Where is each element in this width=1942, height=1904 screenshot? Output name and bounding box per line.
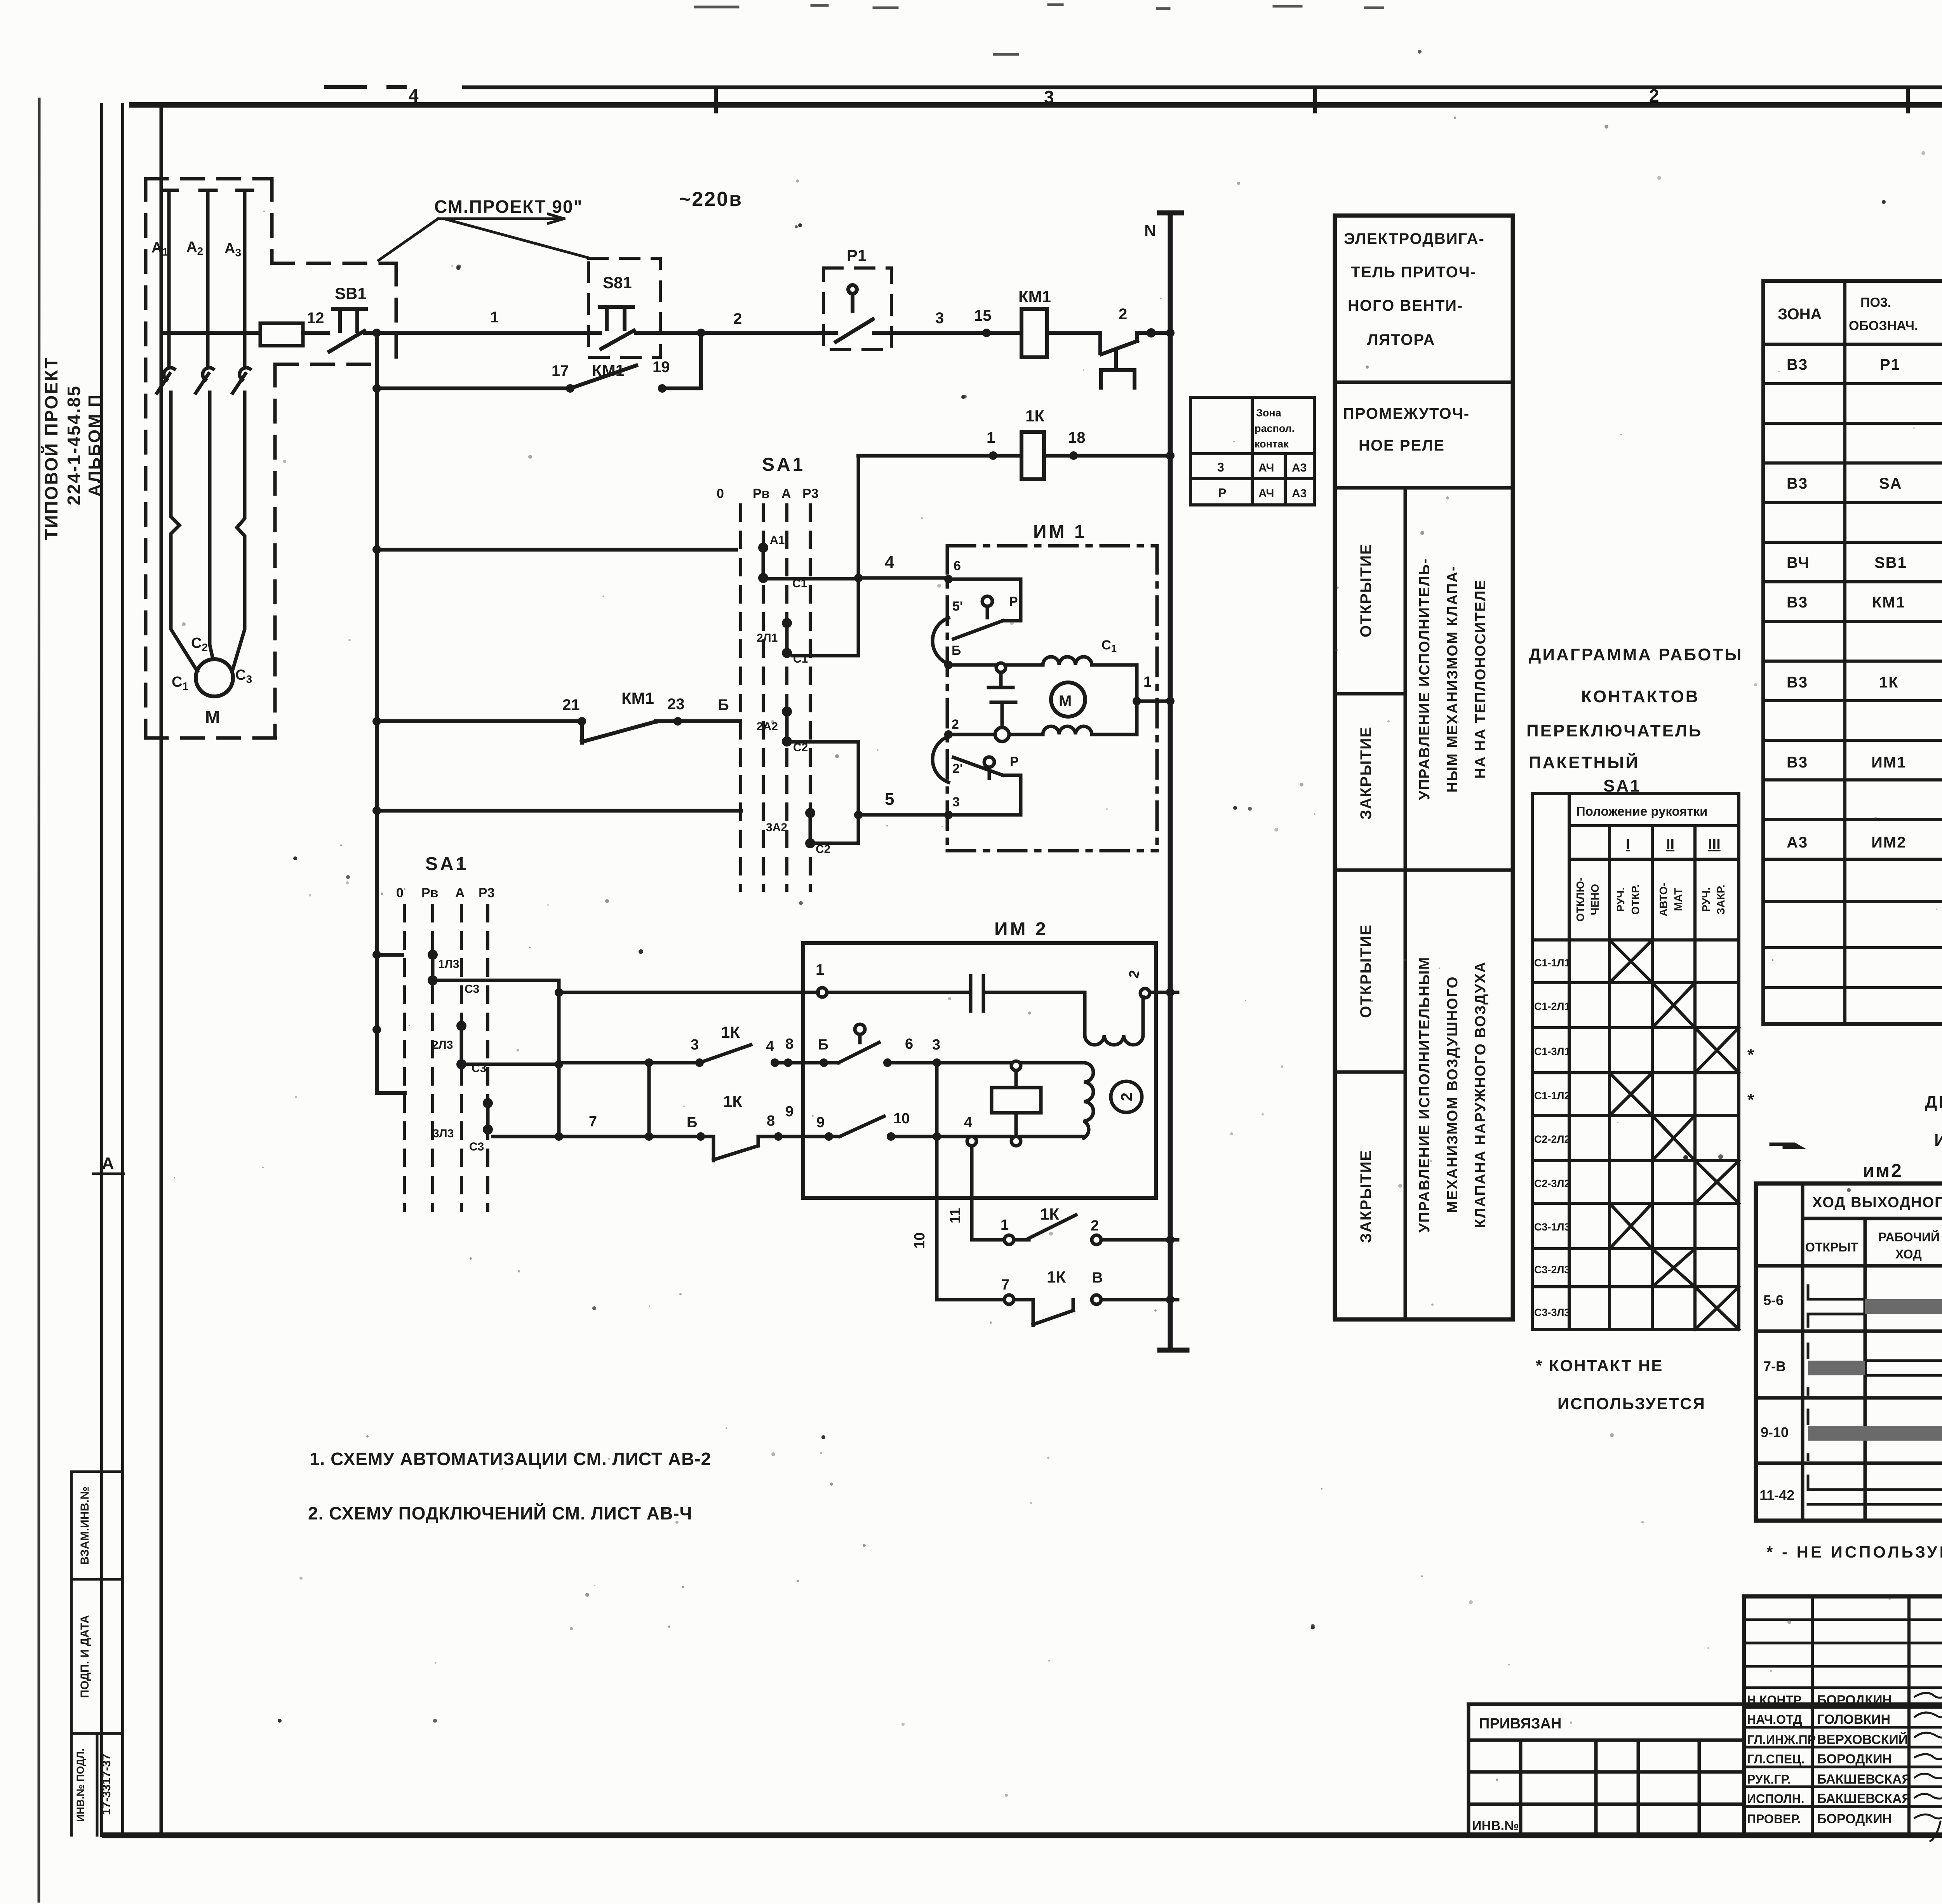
IM1 winding lower [1043,726,1092,734]
bus node y2651 [372,1025,381,1034]
node IM2-N [1166,988,1175,997]
junction 10 riser top [933,1058,941,1067]
svg-text:1: 1 [490,309,499,326]
svg-text:С1: С1 [172,674,188,692]
contact blade A3 [233,374,245,393]
title block outer top [1744,1594,1942,1599]
IM1 wire to right riser top [1092,665,1137,701]
svg-text:БОРОДКИН: БОРОДКИН [1817,1812,1892,1826]
node 6 mid [883,1058,892,1067]
junction on wire 4 [854,574,863,582]
SA1 dashed column A [785,505,788,890]
stray pen mark left of diagrams title [1771,1144,1800,1147]
svg-text:ЗАКР.: ЗАКР. [1715,884,1727,914]
svg-text:ИМ1: ИМ1 [1871,754,1906,771]
parts row lines [1763,384,1942,988]
svg-text:2. СХЕМУ ПОДКЛЮЧЕНИЙ СМ. ЛИС: 2. СХЕМУ ПОДКЛЮЧЕНИЙ СМ. ЛИСТ АВ-Ч [308,1503,693,1523]
SA1 tbl header rows [1569,826,1739,859]
svg-text:2: 2 [1126,969,1143,980]
svg-text:1: 1 [1001,1217,1009,1233]
frame left line x=316 [121,105,124,1835]
svg-text:10: 10 [912,1232,928,1249]
IM2 wire 2 to N [1150,991,1178,994]
svg-text:А3: А3 [1292,487,1307,500]
svg-text:НОГО ВЕНТИ-: НОГО ВЕНТИ- [1348,297,1463,314]
relay bottom lead [1015,1113,1018,1136]
svg-text:I: I [1626,836,1630,853]
middle rung to IM2 [559,1043,1084,1063]
IM1 wire to right riser bottom [1092,701,1137,734]
svg-text:В3: В3 [1787,594,1808,611]
SA1 contact pair 2L1-C1 [785,623,789,653]
IM1 wire from 3 [948,775,1021,815]
svg-text:1. СХЕМУ АВТОМАТИЗАЦИИ СМ. Л: 1. СХЕМУ АВТОМАТИЗАЦИИ СМ. ЛИСТ АВ-2 [310,1449,711,1469]
IM1 limit switch 5' blade [954,621,1003,639]
svg-text:М: М [205,707,220,727]
frame left main x=415 [160,105,163,1835]
svg-text:3А2: 3А2 [766,821,787,834]
svg-text:В3: В3 [1787,475,1808,492]
svg-text:БАКШЕВСКАЯ: БАКШЕВСКАЯ [1817,1772,1911,1787]
scan speckles [278,165,1942,1723]
paper edge shadow left [38,99,40,1901]
left control bus [372,333,741,1093]
svg-text:В3: В3 [1787,674,1808,691]
wire C1b to riser [792,654,858,658]
SA1 output wires [768,456,948,843]
svg-text:АВТО-: АВТО- [1657,883,1669,917]
svg-text:9: 9 [785,1103,794,1120]
svg-text:А3: А3 [224,240,241,259]
phase line A1 [157,190,252,671]
riser C2 [857,742,860,843]
svg-text:9: 9 [816,1114,825,1131]
title block [1469,1596,1942,1836]
bus node y1415 [372,545,381,554]
svg-text:РУЧ.: РУЧ. [1615,887,1627,912]
svg-text:РУЧ.: РУЧ. [1700,887,1712,912]
X mark row5 col II [1652,1116,1695,1161]
svg-text:224-1-454.85: 224-1-454.85 [64,385,84,505]
svg-text:НЫМ МЕХАНИЗМОМ КЛАПА-: НЫМ МЕХАНИЗМОМ КЛАПА- [1444,566,1461,793]
node 5 low [696,1132,705,1141]
svg-text:ИСПОЛН.: ИСПОЛН. [1747,1792,1805,1806]
svg-text:0: 0 [396,886,404,900]
contactor coil KM1 [1021,309,1047,357]
svg-text:АЧ: АЧ [1258,487,1274,500]
stamp box divider y=4066 [71,1578,123,1581]
SA1 lower dashed column Rv [431,905,434,1211]
SA1 lower dashed column A [460,905,463,1211]
svg-text:распол.: распол. [1255,423,1295,434]
IM1 coupling arc upper [933,618,948,664]
svg-text:В3: В3 [1787,754,1808,771]
bus stub y2458 [377,953,402,957]
P1 dashed box [823,268,891,350]
X mark row9 col III [1695,1287,1739,1330]
SA1 diagram title [1526,645,1743,795]
zone location small table [1190,397,1314,505]
phase line A2 [200,190,216,367]
IM2 diagram bars row 5-6 [1808,1286,1942,1513]
svg-text:ЭЛЕКТРОДВИГА-: ЭЛЕКТРОДВИГА- [1344,230,1485,247]
svg-text:С3: С3 [469,1140,484,1153]
wire C3a y2524 [438,979,559,982]
IM1 capacitor top terminal [996,663,1006,672]
svg-text:ДИАГРАММЫ РАБОТЫ. КОНТАКТОВ: ДИАГРАММЫ РАБОТЫ. КОНТАКТОВ [1925,1093,1942,1112]
actuator IM2 box [803,943,1156,1198]
notes [308,1449,711,1523]
svg-text:21: 21 [562,696,580,714]
pushbutton S B1 head [600,307,633,329]
svg-text:1К: 1К [1025,407,1044,425]
svg-text:ИМ 1: ИМ 1 [1033,522,1087,542]
junction x1439 y2926 [555,1132,563,1141]
IM1 terminal 5 node [944,661,953,669]
SA1 dashed column O [739,505,742,890]
svg-text:2: 2 [1119,306,1127,323]
svg-text:А3: А3 [1292,461,1307,474]
svg-text:23: 23 [667,696,685,713]
svg-text:А: А [455,886,465,900]
IM1 motor bottom wire [948,733,1043,736]
IM2 diagram bars row 7-8 [1808,1344,1942,1394]
svg-text:3: 3 [952,795,960,809]
svg-text:1К: 1К [1047,1268,1066,1286]
svg-text:ИМ 2: ИМ 2 [994,919,1048,940]
svg-text:~220в: ~220в [679,188,743,211]
svg-text:КМ1: КМ1 [621,689,654,707]
leader line см.проект 90 [379,214,587,260]
top ruler line [326,87,1942,87]
node 21 [578,717,586,726]
frame left inner line x=262 [100,105,103,1835]
IM1 capacitor [988,672,1016,729]
svg-text:Б: Б [952,643,961,658]
svg-text:3: 3 [1217,460,1224,474]
svg-text:КМ1: КМ1 [1018,287,1051,306]
relay top lead [1015,1070,1018,1088]
wire C3b y2740 [466,1063,559,1066]
svg-text:5': 5' [952,599,963,614]
svg-text:ЛЯТОРА: ЛЯТОРА [1367,331,1435,348]
svg-text:ВЧ: ВЧ [1787,554,1810,571]
node 18 [1069,451,1078,460]
SA1 lower dashed column R3 [486,905,489,1211]
relay 1K rung [858,432,1175,479]
svg-text:11-42: 11-42 [1759,1487,1794,1503]
svg-text:ИМ2: ИМ2 [1871,834,1906,851]
node 8 mid [784,1058,792,1067]
IM2 terminal 1 circle [818,988,827,997]
relay top terminal [1011,1061,1021,1070]
node 4 mid [771,1058,779,1067]
svg-text:3: 3 [691,1037,699,1053]
top bleed dashes from adjacent sheet [695,5,1942,54]
svg-text:С1: С1 [1102,638,1117,654]
svg-text:СМ.ПРОЕКТ 90": СМ.ПРОЕКТ 90" [434,197,583,217]
svg-text:6: 6 [905,1036,913,1052]
svg-text:N: N [1144,221,1156,240]
SA1 contacts table [1532,794,1739,1330]
SA1 tbl row lines [1532,940,1739,1287]
relay bottom terminal [1011,1136,1021,1146]
IM1 terminal 3 node [944,811,953,819]
node 1K-N [1166,451,1175,460]
svg-text:Р1: Р1 [847,246,867,265]
zone tick x=3386 [1313,87,1317,111]
terminal 4 circle [967,1136,976,1146]
svg-text:ЧЕНО: ЧЕНО [1589,884,1601,915]
contact hook A1 [164,368,174,380]
bus node y2458 [372,950,381,959]
pushbutton SB1 blade [329,331,364,352]
IM1 wire 1 to N [1137,700,1170,703]
SA1 lower dashed column O [403,905,406,1211]
node before N [1147,328,1156,338]
zone tick x=4912 [1906,87,1910,111]
svg-text:SА: SА [1879,475,1902,492]
X mark row1 col I [1610,940,1652,983]
svg-text:2А2: 2А2 [757,720,778,733]
svg-text:2: 2 [1091,1218,1099,1234]
node 17 [566,384,574,393]
svg-text:Б: Б [718,696,729,714]
svg-text:БОРОДКИН: БОРОДКИН [1817,1752,1892,1767]
IM2 capacitor [971,976,983,1011]
fuse FU [260,323,303,346]
svg-text:2: 2 [733,310,742,327]
node junction wire2 [697,329,705,337]
svg-text:3: 3 [932,1037,940,1053]
node 8 low [774,1132,783,1141]
svg-text:II: II [1666,836,1674,853]
svg-text:3: 3 [1044,87,1054,107]
IM2 winding horizontal [1085,1035,1143,1045]
svg-text:УПРАВЛЕНИЕ ИСПОЛНИТЕЛЬ-: УПРАВЛЕНИЕ ИСПОЛНИТЕЛЬ- [1416,558,1433,800]
svg-text:им2: им2 [1863,1161,1903,1181]
svg-text:УПРАВЛЕНИЕ ИСПОЛНИТЕЛЬНЫМ: УПРАВЛЕНИЕ ИСПОЛНИТЕЛЬНЫМ [1416,957,1433,1233]
svg-text:ПРИВЯЗАН: ПРИВЯЗАН [1479,1716,1561,1732]
svg-text:С3: С3 [465,983,479,996]
svg-text:S81: S81 [603,273,632,292]
svg-text:Рв: Рв [753,486,770,501]
SA1 tbl col lines [1569,794,1695,1330]
IM1 limit switch 2' blade [954,757,1003,775]
wire to IM2 terminal 1 [559,991,818,994]
svg-text:4: 4 [964,1114,972,1131]
svg-text:ПОДП. И ДАТА: ПОДП. И ДАТА [78,1615,91,1698]
signature table rows [1744,1620,1942,1807]
SA1 contact pair 2L2-C2 [785,712,789,741]
svg-text:ЗАКРЫТИЕ: ЗАКРЫТИЕ [1357,1150,1375,1243]
wire C2b [815,842,858,845]
svg-text:ОТКЛЮ-: ОТКЛЮ- [1574,877,1586,922]
terminal circle 8 [1092,1295,1101,1304]
riser 11 x2502 [970,1146,974,1240]
svg-text:7-В: 7-В [1763,1358,1786,1374]
svg-text:БОРОДКИН: БОРОДКИН [1817,1693,1892,1707]
rung KM1 aux 17-19 [377,333,701,388]
node 9 low [825,1132,833,1141]
svg-text:* - НЕ ИСПОЛЬЗУЕТСЯ: * - НЕ ИСПОЛЬЗУЕТСЯ [1766,1543,1942,1561]
terminal circle 1 [1004,1235,1014,1244]
svg-text:Р: Р [1218,486,1226,500]
svg-text:С1-2Л1: С1-2Л1 [1534,1001,1570,1012]
SA1 contact pair 3L2-C2 [809,813,812,843]
IM1 motor top wire [948,663,1043,667]
signature table columns [1812,1596,1942,1836]
riser 10 x2412 [935,1063,939,1300]
svg-text:В3: В3 [1787,356,1808,373]
svg-text:6: 6 [954,559,961,573]
svg-text:Н.КОНТР.: Н.КОНТР. [1747,1693,1803,1707]
contact hook A3 [240,368,250,380]
rung KM1 21-23 [377,721,740,743]
svg-text:1: 1 [1143,674,1152,690]
svg-text:4: 4 [885,553,894,572]
thermal relay KK contact blade [1102,341,1137,354]
riser to 1K rung [857,456,860,656]
svg-text:2Л1: 2Л1 [757,632,778,644]
X mark row7 col I [1610,1203,1652,1249]
power circuit dashed enclosure [146,179,396,738]
legend divider y984 [1335,381,1513,384]
svg-text:РАБОЧИЙ: РАБОЧИЙ [1878,1230,1940,1244]
svg-text:ТЕЛЬ ПРИТОЧ-: ТЕЛЬ ПРИТОЧ- [1351,264,1476,281]
svg-text:ТИПОВОЙ ПРОЕКТ: ТИПОВОЙ ПРОЕКТ [41,357,61,540]
IM2 position indicator circle 2 [1111,1081,1142,1112]
svg-text:17: 17 [552,362,569,379]
svg-text:Р1: Р1 [1880,356,1900,373]
wire from KM1 coil to thermal contact [1047,333,1100,353]
svg-text:1К: 1К [1040,1205,1059,1223]
svg-text:1К: 1К [721,1023,740,1041]
svg-text:*: * [1747,1090,1754,1109]
svg-text:2Л3: 2Л3 [432,1039,453,1051]
svg-text:ИНВ.№ ПОДЛ.: ИНВ.№ ПОДЛ. [75,1748,86,1822]
stamp box divider y=4463 [71,1732,123,1735]
parts list table [1763,281,1942,1024]
svg-text:КЛАПАНА НАРУЖНОГО ВОЗДУХА: КЛАПАНА НАРУЖНОГО ВОЗДУХА [1472,961,1489,1228]
svg-text:ВЗАМ.ИНВ.№: ВЗАМ.ИНВ.№ [78,1486,91,1565]
SA1 contact pair 3L3-C3 [486,1103,490,1130]
IM1 winding upper [1043,657,1092,665]
svg-text:2: 2 [1118,1093,1135,1101]
wire 2 [636,331,823,335]
legend divider open/close lower [1335,1070,1405,1074]
wire 5 to IM1 [858,813,948,817]
svg-text:7: 7 [589,1114,597,1130]
svg-text:Б: Б [818,1037,828,1053]
svg-text:С2-3Л2: С2-3Л2 [1534,1178,1570,1189]
svg-text:* КОНТАКТ НЕ: * КОНТАКТ НЕ [1536,1356,1663,1375]
node 5 mid [820,1058,828,1067]
IM1 capacitor bottom junction [995,727,1009,741]
svg-text:2: 2 [1649,85,1659,106]
zone number 4 [409,85,1942,107]
wire C1a to riser [768,577,858,581]
svg-text:ОТКРЫТИЕ: ОТКРЫТИЕ [1357,924,1375,1018]
motor M circle [196,659,233,696]
terminal circle 2 [1092,1235,1101,1244]
legend inner vertical [1404,488,1407,1319]
svg-text:3: 3 [935,310,944,327]
SA1 dashed column Rv [762,505,765,890]
relay box in IM2 [992,1088,1041,1113]
svg-text:А3: А3 [1787,834,1808,851]
parts col lines [1845,281,1942,1024]
svg-text:ВЕРХОВСКИЙ: ВЕРХОВСКИЙ [1817,1732,1908,1747]
vertical legend column table [1335,216,1513,1319]
IM2 terminal 2 circle [1140,989,1150,998]
svg-text:А: А [102,1154,114,1173]
frame top edge [132,102,1942,108]
svg-text:С3-2Л3: С3-2Л3 [1534,1264,1570,1276]
SA1 contact pair 1L3-C3 [431,955,435,980]
svg-text:ПАКЕТНЫЙ: ПАКЕТНЫЙ [1529,752,1639,772]
P1 thermostat contact [827,294,987,342]
svg-text:5-6: 5-6 [1763,1292,1784,1308]
svg-text:С2: С2 [191,635,208,653]
node 10 low [887,1132,895,1141]
svg-text:АЛЬБОМ П: АЛЬБОМ П [85,393,104,496]
IM2 wire winding to terminal 2 [1142,997,1145,1035]
node IM1-N [1166,697,1175,705]
svg-text:12: 12 [307,310,324,327]
svg-text:А2: А2 [186,239,203,257]
thermal relay KK heater symbol [1101,352,1135,388]
relay coil 1K [1021,432,1044,479]
contact 1K dot3 [695,1058,704,1067]
svg-text:РУК.ГР.: РУК.ГР. [1747,1772,1791,1786]
bus node y2087 [372,806,381,815]
S B1 dashed box [588,258,660,357]
wire 1 (SB1 to SB1') [365,331,600,335]
svg-text:Зона: Зона [1256,407,1282,419]
svg-text:С3-3Л3: С3-3Л3 [1534,1307,1570,1318]
svg-text:МАТ: МАТ [1672,888,1684,911]
svg-text:5: 5 [885,790,894,809]
svg-text:ХОД ВЫХОДНОГО ВАЛА: ХОД ВЫХОДНОГО ВАЛА [1812,1194,1942,1211]
title block attach table [1469,1702,1942,1706]
node 23 [673,717,682,726]
svg-text:НОЕ РЕЛЕ: НОЕ РЕЛЕ [1359,437,1445,454]
svg-text:3Л3: 3Л3 [433,1127,454,1140]
svg-text:19: 19 [653,359,670,376]
left margin stamp boxes [71,1472,123,1835]
svg-text:18: 18 [1068,429,1086,446]
svg-text:БАКШЕВСКАЯ: БАКШЕВСКАЯ [1817,1791,1911,1806]
svg-text:ИСПОЛНИТЕЛЬНЫХ МЕХАНИЗМОВ: ИСПОЛНИТЕЛЬНЫХ МЕХАНИЗМОВ [1934,1131,1942,1150]
wire to N [1137,333,1170,341]
svg-text:10: 10 [893,1110,910,1127]
svg-text:Рв: Рв [421,886,439,900]
svg-text:АЧ: АЧ [1258,461,1274,474]
svg-text:М: М [1059,693,1072,710]
svg-text:2: 2 [952,717,959,732]
svg-text:4: 4 [766,1038,774,1055]
svg-text:ГЛ.СПЕЦ.: ГЛ.СПЕЦ. [1747,1752,1805,1766]
svg-text:1: 1 [816,961,824,978]
svg-text:НАЧ.ОТД: НАЧ.ОТД [1747,1713,1802,1726]
P1 thermostat head circle [848,285,857,294]
motor feeder wire C2 [210,392,213,659]
pushbutton SB1 head [333,309,366,331]
junction x1671 y2926 [645,1132,653,1141]
svg-text:С3-1Л3: С3-1Л3 [1534,1221,1570,1233]
rung y2087 [377,809,741,813]
